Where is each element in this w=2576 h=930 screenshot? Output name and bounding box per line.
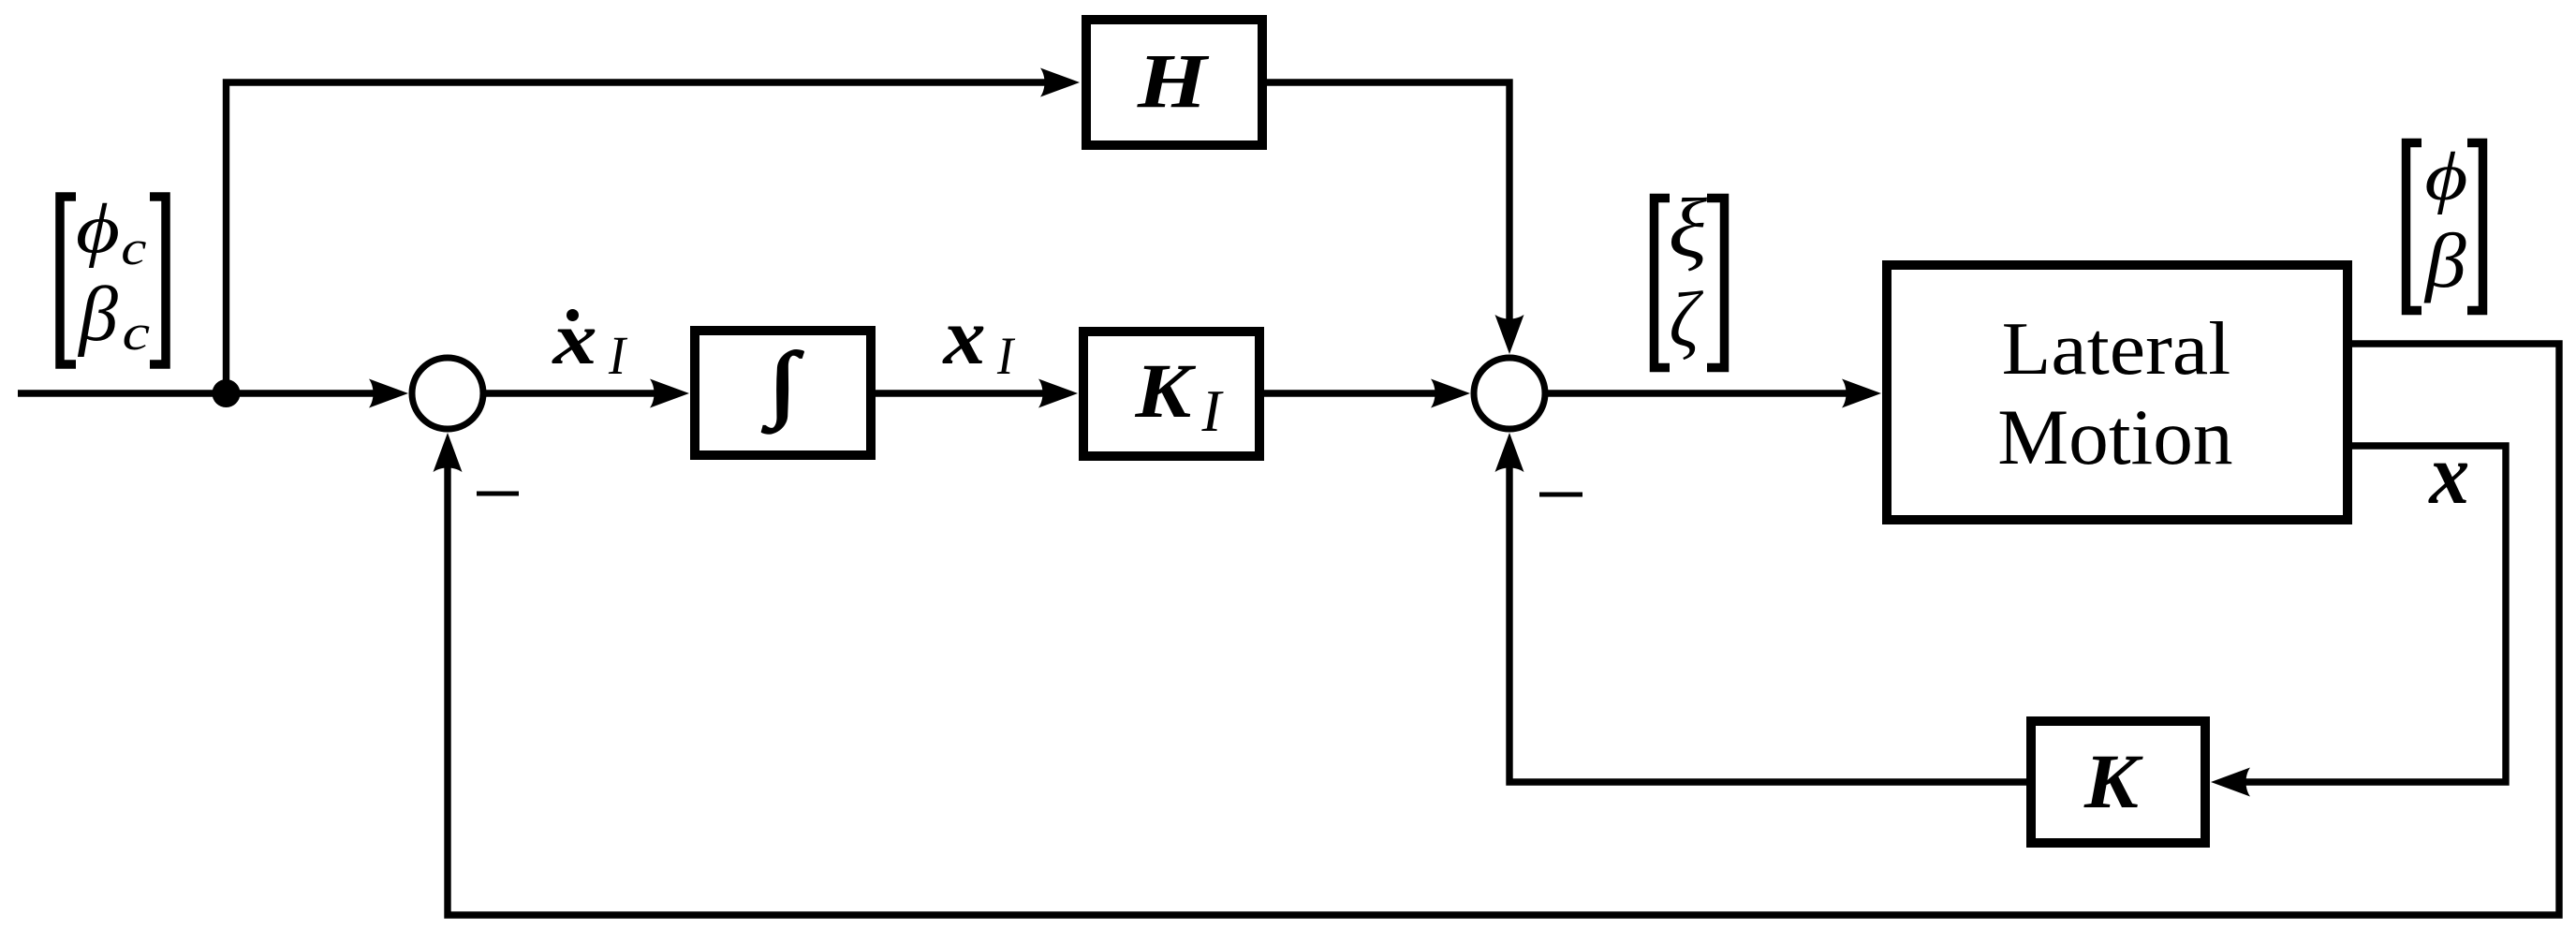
node branch dot <box>213 379 241 407</box>
block K <box>2031 721 2205 843</box>
label beta_c <box>77 272 118 358</box>
label x output <box>2427 427 2469 522</box>
bracket left of xi zeta matrix <box>1655 199 1671 368</box>
arrowhead into sum2 left <box>1431 379 1470 408</box>
arrowhead into KI <box>1038 379 1078 408</box>
svg-text:I: I <box>608 326 627 386</box>
minus sign at sum1 <box>477 492 519 496</box>
label zeta <box>1670 275 1704 363</box>
svg-text:c: c <box>121 221 146 274</box>
label integral <box>762 336 803 434</box>
svg-text:ϕ: ϕ <box>2424 138 2467 215</box>
wire branch up to H <box>227 82 1064 393</box>
block KI <box>1083 332 1259 456</box>
label K <box>2083 740 2144 825</box>
arrowhead into sum2 top <box>1495 315 1524 354</box>
wire x output to K <box>2227 446 2506 782</box>
minus sign at sum2 <box>1539 493 1582 497</box>
wire sum2 to plant <box>1546 390 1865 396</box>
arrowhead into H <box>1040 68 1080 97</box>
svg-text:ζ: ζ <box>1670 275 1704 363</box>
bracket left of phi beta matrix <box>2407 143 2422 311</box>
svg-text:I: I <box>1201 378 1225 445</box>
wire H to sum2 top <box>1267 82 1509 339</box>
wire integrator to KI <box>876 390 1063 396</box>
svg-text:ϕ: ϕ <box>76 189 120 269</box>
label phi_c <box>76 189 120 269</box>
wire input <box>18 390 393 396</box>
label xdot_I <box>551 297 596 379</box>
summing junction 2 <box>1474 358 1545 429</box>
svg-text:x: x <box>2427 427 2469 522</box>
arrowhead into sum1 <box>369 379 408 408</box>
label H <box>1137 39 1210 125</box>
svg-text:K: K <box>2083 740 2144 825</box>
svg-text:Lateral: Lateral <box>2002 308 2231 391</box>
label phi <box>2424 138 2467 215</box>
svg-text:∫: ∫ <box>762 336 803 434</box>
label K_I <box>1134 347 1197 434</box>
label beta <box>2423 218 2466 304</box>
wire sum1 to integrator <box>484 390 674 396</box>
bracket right of input matrix <box>150 197 166 364</box>
svg-text:β: β <box>2423 218 2466 304</box>
block H <box>1086 20 1262 145</box>
arrowhead into sum1 bottom <box>434 433 463 472</box>
svg-text:I: I <box>996 327 1016 386</box>
arrowhead into plant <box>1842 379 1881 408</box>
arrowhead into sum2 bottom <box>1495 433 1524 472</box>
svg-text:Motion: Motion <box>1997 393 2232 481</box>
label xi <box>1669 183 1707 275</box>
svg-text:β: β <box>77 272 118 358</box>
svg-text:K: K <box>1134 347 1197 434</box>
arrowhead into integrator <box>650 379 689 408</box>
svg-text:c: c <box>123 305 151 362</box>
bracket right of phi beta matrix <box>2467 143 2483 311</box>
svg-text:ξ: ξ <box>1669 183 1707 275</box>
block integrator <box>695 331 871 455</box>
bracket left of input matrix <box>60 197 76 364</box>
label x_I <box>941 292 985 382</box>
arrowhead into K <box>2211 768 2250 797</box>
bracket right of xi zeta matrix <box>1707 199 1725 368</box>
summing junction 1 <box>412 358 483 429</box>
wire KI to sum2 <box>1264 390 1453 396</box>
svg-text:x: x <box>941 292 985 382</box>
svg-text:H: H <box>1137 39 1210 125</box>
wire outer feedback loop <box>448 344 2559 915</box>
label Lateral Motion <box>2002 308 2231 391</box>
wire K to sum2 bottom <box>1509 448 2026 782</box>
block Lateral Motion <box>1887 265 2348 520</box>
